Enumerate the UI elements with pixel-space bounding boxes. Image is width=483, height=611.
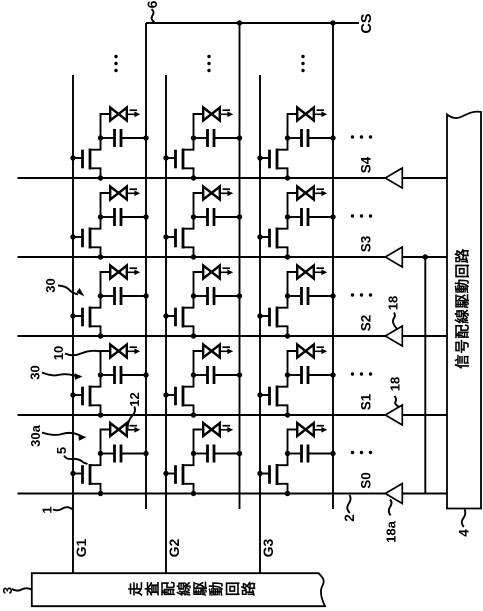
svg-text:G3: G3 — [260, 538, 276, 557]
junction drain node, cell 21 — [191, 451, 196, 456]
wire storage node to capacitor, cell 24 — [194, 216, 208, 218]
svg-text:配: 配 — [160, 581, 177, 596]
svg-text:6: 6 — [144, 0, 160, 8]
wire TFT source to line S2, cell 13 — [90, 326, 101, 336]
svg-text:S4: S4 — [359, 156, 374, 173]
junction CS bus / CS column 3 — [330, 20, 335, 25]
LED (light emitting diode) bowtie, cell 25 — [203, 108, 220, 121]
capacitor plates, cell 35 — [302, 129, 309, 147]
lead line from label 2 to signal line S0 — [347, 495, 350, 513]
wire signal line S3 (buffer output to driver box) — [402, 256, 447, 258]
node S1 label — [359, 393, 374, 410]
junction gate line G2 / TFT gate, cell 25 — [163, 155, 168, 160]
LED emission arrow, cell 14 — [128, 189, 140, 196]
LED (light emitting diode) bowtie, cell 14 — [110, 187, 127, 200]
label 5 (gate electrode) — [54, 447, 69, 454]
junction gate line G1 / TFT gate, cell 14 — [70, 234, 75, 239]
wire TFT drain to storage node, cell 25 — [183, 138, 194, 150]
junction capacitor / CS column line, cell 33 — [330, 293, 335, 298]
capacitor plates, cell 11 — [115, 445, 122, 463]
lead line from label 3 to bottom box — [12, 588, 32, 590]
junction gate line G3 / TFT gate, cell 34 — [257, 234, 262, 239]
transistor TFT gate bar, cell 32 — [268, 387, 271, 406]
label signal line drive circuit text — [454, 248, 472, 369]
wire TFT gate lead, cell 22 — [166, 394, 176, 396]
junction gate line G2 / TFT gate, cell 23 — [163, 313, 168, 318]
junction drain node, cell 15 — [98, 135, 103, 140]
junction drain node, cell 34 — [285, 214, 290, 219]
svg-text:動: 動 — [209, 582, 226, 597]
wire drain node up to LED, cell 25 — [194, 114, 204, 138]
svg-text:CS: CS — [359, 13, 375, 33]
capacitor plates, cell 32 — [302, 366, 309, 384]
junction gate line G1 / TFT gate, cell 11 — [70, 471, 75, 476]
capacitor plates, cell 14 — [115, 208, 122, 226]
capacitor plates, cell 33 — [302, 287, 309, 305]
transistor TFT gate bar, cell 11 — [81, 465, 84, 484]
wire capacitor to CS line, cell 15 — [121, 137, 146, 139]
LED emission arrow, cell 32 — [315, 347, 327, 354]
wire drain node up to LED, cell 32 — [288, 351, 298, 375]
transistor TFT channel bar, cell 35 — [276, 149, 279, 170]
junction source / signal line S2, cell 23 — [191, 333, 196, 338]
junction gate line G1 / TFT gate, cell 15 — [70, 155, 75, 160]
capacitor plates, cell 34 — [302, 208, 309, 226]
capacitor plates, cell 25 — [208, 129, 215, 147]
buffer amplifier on S0 (triangle) — [385, 484, 402, 504]
junction source / signal line S1, cell 12 — [98, 412, 103, 417]
wire storage node to capacitor, cell 12 — [101, 374, 115, 376]
lead line from label 18 (S1) to buffer — [395, 396, 400, 407]
junction source / signal line S0, cell 31 — [285, 491, 290, 496]
wire TFT gate lead, cell 12 — [73, 394, 83, 396]
junction source / signal line S4, cell 15 — [98, 175, 103, 180]
wire capacitor to CS line, cell 32 — [308, 374, 333, 376]
transistor TFT channel bar, cell 23 — [182, 307, 185, 328]
svg-text:S3: S3 — [359, 235, 374, 252]
wire TFT source to line S0, cell 21 — [183, 484, 194, 494]
transistor TFT gate bar, cell 33 — [268, 308, 271, 327]
wire CS column line 3 (vertical) — [332, 23, 334, 509]
LED (light emitting diode) bowtie, cell 31 — [297, 423, 314, 436]
LED emission arrow, cell 15 — [128, 110, 140, 117]
junction capacitor / CS column line, cell 23 — [237, 293, 242, 298]
wire TFT drain to storage node, cell 11 — [90, 454, 101, 466]
ellipsis dots (array continues right) row S3 — [351, 214, 372, 217]
junction gate line G2 / TFT gate, cell 21 — [163, 471, 168, 476]
LED (light emitting diode) bowtie, cell 11 — [110, 423, 127, 436]
transistor TFT channel bar, cell 13 — [89, 307, 92, 328]
junction capacitor / CS column line, cell 11 — [143, 451, 148, 456]
wire TFT gate lead, cell 21 — [166, 473, 176, 475]
capacitor plates, cell 24 — [208, 208, 215, 226]
junction capacitor / CS column line, cell 12 — [143, 372, 148, 377]
junction source / signal line S2, cell 13 — [98, 333, 103, 338]
LED (light emitting diode) bowtie, cell 23 — [203, 266, 220, 279]
junction gate line G3 / TFT gate, cell 32 — [257, 392, 262, 397]
ellipsis dots (array continues right) row S2 — [351, 293, 372, 296]
wire drain node up to LED, cell 13 — [101, 272, 111, 296]
wire TFT gate lead, cell 23 — [166, 315, 176, 317]
ellipsis dots (array continues up) column 1 — [114, 55, 117, 72]
transistor TFT gate bar, cell 21 — [174, 465, 177, 484]
buffer amplifier on S2 (triangle) — [385, 326, 402, 346]
LED emission arrow, cell 35 — [315, 110, 327, 117]
transistor TFT gate bar, cell 24 — [174, 229, 177, 248]
junction drain node, cell 32 — [285, 372, 290, 377]
label 3 (scan line drive circuit) — [0, 587, 15, 594]
junction drain node, cell 23 — [191, 293, 196, 298]
transistor TFT gate bar, cell 23 — [174, 308, 177, 327]
wire signal line S4 (horizontal, left of buffer) — [18, 177, 386, 179]
LED (light emitting diode) bowtie, cell 15 — [110, 108, 127, 121]
svg-text:2: 2 — [342, 514, 357, 522]
transistor TFT channel bar, cell 24 — [182, 228, 185, 249]
svg-text:1: 1 — [40, 506, 55, 513]
LED emission arrow, cell 24 — [221, 189, 233, 196]
svg-text:G2: G2 — [166, 538, 182, 557]
transistor TFT gate bar, cell 35 — [268, 150, 271, 169]
label 2 (signal line) — [342, 514, 357, 522]
box signal line drive circuit (right) — [447, 112, 481, 509]
capacitor plates, cell 15 — [115, 129, 122, 147]
LED emission arrow, cell 22 — [221, 347, 233, 354]
node S3 label — [359, 235, 374, 252]
node G1 label — [73, 538, 89, 557]
junction drain node, cell 24 — [191, 214, 196, 219]
LED (light emitting diode) bowtie, cell 34 — [297, 187, 314, 200]
capacitor plates, cell 31 — [302, 445, 309, 463]
wire TFT source to line S3, cell 34 — [277, 247, 288, 257]
transistor TFT gate bar, cell 13 — [81, 308, 84, 327]
transistor TFT channel bar, cell 11 — [89, 464, 92, 485]
junction source / signal line S1, cell 22 — [191, 412, 196, 417]
LED emission arrow, cell 13 — [128, 268, 140, 275]
wire TFT gate lead, cell 32 — [260, 394, 270, 396]
junction source / signal line S4, cell 35 — [285, 175, 290, 180]
wire capacitor to CS line, cell 14 — [121, 216, 146, 218]
wire capacitor to CS line, cell 11 — [121, 453, 146, 455]
wire TFT drain to storage node, cell 35 — [277, 138, 288, 150]
wire drain node up to LED, cell 33 — [288, 272, 298, 296]
junction capacitor / CS column line, cell 24 — [237, 214, 242, 219]
wire drain node up to LED, cell 22 — [194, 351, 204, 375]
junction CS bus / CS column 2 — [237, 20, 242, 25]
wire TFT gate lead, cell 24 — [166, 236, 176, 238]
label 4 (signal line drive circuit) — [456, 529, 471, 537]
junction drain node, cell 14 — [98, 214, 103, 219]
svg-text:S0: S0 — [359, 472, 374, 489]
svg-text:3: 3 — [0, 587, 15, 594]
wire TFT source to line S1, cell 12 — [90, 405, 101, 415]
wire capacitor to CS line, cell 34 — [308, 216, 333, 218]
LED (light emitting diode) bowtie, cell 22 — [203, 345, 220, 358]
wire storage node to capacitor, cell 15 — [101, 137, 115, 139]
lead line from label 10 to drain wire — [65, 351, 101, 355]
svg-text:路: 路 — [240, 581, 258, 596]
transistor TFT gate bar, cell 31 — [268, 465, 271, 484]
node CS label — [359, 13, 375, 33]
label 30 (pixel circuit, lower) — [28, 365, 43, 379]
wire capacitor to CS line, cell 22 — [214, 374, 240, 376]
svg-text:4: 4 — [456, 529, 471, 537]
junction source / signal line S3, cell 34 — [285, 254, 290, 259]
wire TFT gate lead, cell 31 — [260, 473, 270, 475]
junction capacitor / CS column line, cell 13 — [143, 293, 148, 298]
svg-text:12: 12 — [127, 392, 142, 406]
junction drain node, cell 25 — [191, 135, 196, 140]
label 30 (pixel circuit, upper) — [43, 278, 58, 292]
wire TFT drain to storage node, cell 13 — [90, 296, 101, 308]
buffer amplifier on S4 (triangle) — [385, 168, 402, 188]
LED emission arrow, cell 12 — [128, 347, 140, 354]
svg-text:走: 走 — [128, 581, 145, 596]
wire drain node up to LED, cell 14 — [101, 193, 111, 217]
ellipsis dots (array continues up) column 2 — [207, 55, 210, 72]
lead line from label 18a to buffer — [389, 500, 392, 516]
wire signal line S0 (buffer output to driver box) — [402, 493, 447, 495]
wire storage node to capacitor, cell 32 — [288, 374, 302, 376]
transistor TFT channel bar, cell 15 — [89, 149, 92, 170]
wire TFT source to line S2, cell 33 — [277, 326, 288, 336]
wire TFT source to line S3, cell 14 — [90, 247, 101, 257]
svg-text:18: 18 — [386, 296, 401, 310]
transistor TFT gate bar, cell 34 — [268, 229, 271, 248]
wire TFT drain to storage node, cell 24 — [183, 217, 194, 229]
buffer amplifier on S3 (triangle) — [385, 247, 402, 267]
wire signal line S1 (buffer output to driver box) — [402, 414, 447, 416]
wire drain node up to LED, cell 23 — [194, 272, 204, 296]
transistor TFT channel bar, cell 31 — [276, 464, 279, 485]
wire TFT drain to storage node, cell 33 — [277, 296, 288, 308]
wire storage node to capacitor, cell 35 — [288, 137, 302, 139]
LED emission arrow, cell 25 — [221, 110, 233, 117]
svg-text:30: 30 — [43, 278, 58, 292]
wire drain node up to LED, cell 21 — [194, 430, 204, 454]
LED (light emitting diode) bowtie, cell 35 — [297, 108, 314, 121]
junction source / signal line S3, cell 24 — [191, 254, 196, 259]
junction source / signal line S3, cell 14 — [98, 254, 103, 259]
wire drain node up to LED, cell 15 — [101, 114, 111, 138]
junction source / signal line S0, cell 11 — [98, 491, 103, 496]
junction source / signal line S1, cell 32 — [285, 412, 290, 417]
svg-text:18: 18 — [388, 377, 403, 391]
LED emission arrow, cell 11 — [128, 426, 140, 433]
label 18 (buffer, S1) — [388, 377, 403, 391]
wire TFT drain to storage node, cell 31 — [277, 454, 288, 466]
wire gate line G2 (vertical, scan line) — [165, 75, 167, 573]
wire capacitor to CS line, cell 31 — [308, 453, 333, 455]
transistor TFT channel bar, cell 32 — [276, 386, 279, 407]
junction source / signal line S4, cell 25 — [191, 175, 196, 180]
label 10 (pixel TFT) — [51, 346, 66, 360]
wire TFT gate lead, cell 34 — [260, 236, 270, 238]
junction drain node, cell 22 — [191, 372, 196, 377]
wire TFT source to line S4, cell 25 — [183, 168, 194, 178]
LED (light emitting diode) bowtie, cell 32 — [297, 345, 314, 358]
wire TFT source to line S3, cell 24 — [183, 247, 194, 257]
wire storage node to capacitor, cell 23 — [194, 295, 208, 297]
svg-text:30: 30 — [28, 365, 43, 379]
wire signal line S2 (horizontal, left of buffer) — [18, 335, 386, 337]
wire TFT source to line S0, cell 11 — [90, 484, 101, 494]
junction capacitor / CS column line, cell 25 — [237, 135, 242, 140]
wire storage node to capacitor, cell 22 — [194, 374, 208, 376]
wire storage node to capacitor, cell 13 — [101, 295, 115, 297]
junction signal line S3 / buffer interconnect — [423, 254, 428, 259]
wire drain node up to LED, cell 12 — [101, 351, 111, 375]
LED emission arrow, cell 21 — [221, 426, 233, 433]
junction drain node, cell 12 — [98, 372, 103, 377]
svg-text:駆: 駆 — [193, 581, 210, 596]
junction capacitor / CS column line, cell 31 — [330, 451, 335, 456]
transistor TFT channel bar, cell 21 — [182, 464, 185, 485]
junction source / signal line S0, cell 21 — [191, 491, 196, 496]
junction capacitor / CS column line, cell 32 — [330, 372, 335, 377]
wire gate line G3 (vertical, scan line) — [259, 75, 261, 573]
wire TFT source to line S4, cell 35 — [277, 168, 288, 178]
label 6 (CS bus reference numeral) — [144, 0, 160, 8]
wire drain node up to LED, cell 31 — [288, 430, 298, 454]
wire TFT gate lead, cell 14 — [73, 236, 83, 238]
wire capacitor to CS line, cell 33 — [308, 295, 333, 297]
svg-text:S1: S1 — [359, 393, 374, 410]
wire storage node to capacitor, cell 14 — [101, 216, 115, 218]
wire TFT gate lead, cell 13 — [73, 315, 83, 317]
wire capacitor to CS line, cell 21 — [214, 453, 240, 455]
wire capacitor to CS line, cell 13 — [121, 295, 146, 297]
wire TFT gate lead, cell 15 — [73, 157, 83, 159]
label 18 (buffer, S2) — [386, 296, 401, 310]
wire drain node up to LED, cell 24 — [194, 193, 204, 217]
svg-text:10: 10 — [51, 346, 66, 360]
wire buffer interconnect (vertical, labeled 18) — [424, 257, 426, 494]
transistor TFT channel bar, cell 25 — [182, 149, 185, 170]
junction drain node, cell 35 — [285, 135, 290, 140]
wire TFT source to line S1, cell 22 — [183, 405, 194, 415]
svg-text:線: 線 — [176, 581, 194, 596]
arrow from label 30 (upper) to pixel — [58, 286, 85, 297]
label scan line drive circuit text — [128, 581, 258, 596]
svg-text:30a: 30a — [28, 424, 43, 446]
wire drain node up to LED, cell 11 — [101, 430, 111, 454]
LED emission arrow, cell 34 — [315, 189, 327, 196]
LED (light emitting diode) bowtie, cell 24 — [203, 187, 220, 200]
wire signal line S1 (horizontal, left of buffer) — [18, 414, 386, 416]
wire signal line S0 (horizontal, left of buffer) — [18, 493, 386, 495]
wire TFT drain to storage node, cell 12 — [90, 375, 101, 387]
junction drain node, cell 13 — [98, 293, 103, 298]
wire storage node to capacitor, cell 25 — [194, 137, 208, 139]
junction drain node, cell 31 — [285, 451, 290, 456]
junction gate line G1 / TFT gate, cell 12 — [70, 392, 75, 397]
capacitor plates, cell 23 — [208, 287, 215, 305]
arrow from label 30 (lower) to pixel — [42, 373, 83, 380]
label 1 (scan line) — [40, 506, 55, 513]
wire TFT gate lead, cell 11 — [73, 473, 83, 475]
wire TFT drain to storage node, cell 22 — [183, 375, 194, 387]
ellipsis dots (array continues right) row S0 — [351, 451, 372, 454]
wire TFT source to line S0, cell 31 — [277, 484, 288, 494]
svg-text:回: 回 — [225, 582, 242, 597]
wire storage node to capacitor, cell 33 — [288, 295, 302, 297]
wire TFT gate lead, cell 25 — [166, 157, 176, 159]
wire capacitor to CS line, cell 25 — [214, 137, 240, 139]
junction gate line G3 / TFT gate, cell 35 — [257, 155, 262, 160]
junction gate line G3 / TFT gate, cell 33 — [257, 313, 262, 318]
wire storage node to capacitor, cell 21 — [194, 453, 208, 455]
junction capacitor / CS column line, cell 15 — [143, 135, 148, 140]
wire signal line S4 (buffer output to driver box) — [402, 177, 447, 179]
junction capacitor / CS column line, cell 14 — [143, 214, 148, 219]
wire TFT drain to storage node, cell 21 — [183, 454, 194, 466]
lead line from label 5 to gate bar — [64, 456, 88, 465]
LED emission arrow, cell 23 — [221, 268, 233, 275]
wire capacitor to CS line, cell 12 — [121, 374, 146, 376]
svg-text:18a: 18a — [384, 520, 399, 542]
transistor TFT gate bar, cell 12 — [81, 387, 84, 406]
lead line from label 6 to CS bus — [152, 9, 155, 23]
wire drain node up to LED, cell 34 — [288, 193, 298, 217]
svg-text:G1: G1 — [73, 538, 89, 557]
svg-text:信号配線駆動回路: 信号配線駆動回路 — [454, 248, 472, 369]
wire capacitor to CS line, cell 35 — [308, 137, 333, 139]
wire TFT gate lead, cell 33 — [260, 315, 270, 317]
label 12 (LED) — [127, 392, 142, 406]
LED (light emitting diode) bowtie, cell 12 — [110, 345, 127, 358]
capacitor plates, cell 21 — [208, 445, 215, 463]
junction gate line G2 / TFT gate, cell 24 — [163, 234, 168, 239]
wire CS column line 2 (vertical) — [239, 23, 241, 509]
wire TFT source to line S4, cell 15 — [90, 168, 101, 178]
transistor TFT channel bar, cell 14 — [89, 228, 92, 249]
svg-text:査: 査 — [143, 581, 161, 596]
svg-text:S2: S2 — [359, 315, 374, 332]
node S4 label — [359, 156, 374, 173]
wire CS bus (top horizontal common line) — [146, 22, 359, 24]
label 18a (buffer, S0) — [384, 520, 399, 542]
wire storage node to capacitor, cell 31 — [288, 453, 302, 455]
wire TFT drain to storage node, cell 14 — [90, 217, 101, 229]
transistor TFT channel bar, cell 22 — [182, 386, 185, 407]
wire gate line G1 (vertical, scan line) — [72, 75, 74, 573]
buffer amplifier on S1 (triangle) — [385, 405, 402, 425]
junction gate line G3 / TFT gate, cell 31 — [257, 471, 262, 476]
transistor TFT channel bar, cell 34 — [276, 228, 279, 249]
capacitor plates, cell 12 — [115, 366, 122, 384]
junction capacitor / CS column line, cell 35 — [330, 135, 335, 140]
LED (light emitting diode) bowtie, cell 13 — [110, 266, 127, 279]
node G3 label — [260, 538, 276, 557]
junction capacitor / CS column line, cell 34 — [330, 214, 335, 219]
ellipsis dots (array continues right) row S1 — [351, 372, 372, 375]
junction drain node, cell 33 — [285, 293, 290, 298]
lead line from label 1 to gate line G1 — [53, 507, 73, 510]
transistor TFT gate bar, cell 15 — [81, 150, 84, 169]
lead line from label 18 (S2) to buffer — [393, 313, 397, 330]
lead line from label 12 to LED — [128, 407, 135, 430]
LED (light emitting diode) bowtie, cell 33 — [297, 266, 314, 279]
wire TFT source to line S1, cell 32 — [277, 405, 288, 415]
wire signal line S3 (horizontal, left of buffer) — [18, 256, 386, 258]
wire TFT source to line S2, cell 23 — [183, 326, 194, 336]
junction gate line G1 / TFT gate, cell 13 — [70, 313, 75, 318]
node S0 label — [359, 472, 374, 489]
transistor TFT gate bar, cell 22 — [174, 387, 177, 406]
wire TFT drain to storage node, cell 15 — [90, 138, 101, 150]
wire TFT drain to storage node, cell 32 — [277, 375, 288, 387]
wire TFT gate lead, cell 35 — [260, 157, 270, 159]
